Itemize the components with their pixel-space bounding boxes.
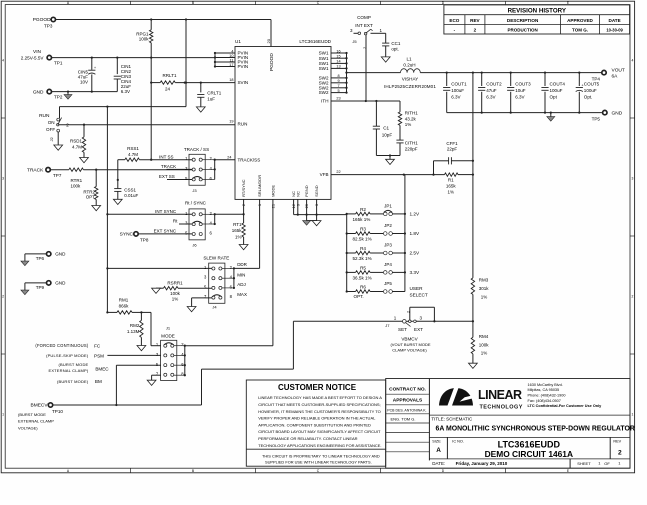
svg-text:R6: R6 bbox=[360, 284, 366, 289]
svg-text:2: 2 bbox=[406, 311, 410, 313]
svg-text:REVISION HISTORY: REVISION HISTORY bbox=[508, 7, 567, 14]
svg-text:OPT: OPT bbox=[86, 195, 96, 200]
svg-text:L1: L1 bbox=[406, 57, 412, 62]
svg-text:RSRR1: RSRR1 bbox=[167, 280, 183, 285]
svg-text:PVIN: PVIN bbox=[238, 64, 249, 69]
svg-text:10uF: 10uF bbox=[515, 88, 526, 93]
svg-text:JP4: JP4 bbox=[384, 262, 392, 267]
svg-text:C1: C1 bbox=[383, 126, 389, 131]
svg-text:OPT.: OPT. bbox=[354, 294, 364, 299]
svg-text:TRACK: TRACK bbox=[161, 164, 176, 169]
svg-text:43.2k: 43.2k bbox=[405, 116, 417, 121]
svg-text:20: 20 bbox=[266, 38, 271, 43]
svg-text:CUSTOMER NOTICE: CUSTOMER NOTICE bbox=[278, 383, 357, 392]
svg-text:CFF1: CFF1 bbox=[446, 141, 458, 146]
svg-text:USER: USER bbox=[410, 286, 424, 291]
svg-text:LINEAR TECHNOLOGY HAS MADE A B: LINEAR TECHNOLOGY HAS MADE A BEST EFFORT… bbox=[258, 395, 382, 400]
svg-text:SW2: SW2 bbox=[319, 90, 329, 95]
svg-text:CC1: CC1 bbox=[391, 41, 400, 46]
svg-text:4.7M: 4.7M bbox=[128, 152, 138, 157]
svg-text:6.3V: 6.3V bbox=[515, 95, 525, 100]
svg-text:EXTERNAL CLAMP): EXTERNAL CLAMP) bbox=[48, 368, 88, 373]
svg-text:TRACK/SS: TRACK/SS bbox=[238, 157, 261, 162]
svg-text:COUT4: COUT4 bbox=[550, 81, 566, 86]
svg-text:TRACK: TRACK bbox=[27, 167, 44, 173]
svg-text:COUT3: COUT3 bbox=[515, 81, 531, 86]
svg-text:COUT5: COUT5 bbox=[584, 81, 600, 86]
svg-text:24: 24 bbox=[227, 155, 231, 159]
svg-text:TRACK / SS: TRACK / SS bbox=[184, 147, 209, 152]
svg-text:1: 1 bbox=[2, 412, 4, 416]
svg-text:Friday, January 29, 2010: Friday, January 29, 2010 bbox=[456, 461, 508, 466]
svg-text:(FORCED CONTINUOUS): (FORCED CONTINUOUS) bbox=[35, 343, 88, 348]
svg-text:FC: FC bbox=[94, 343, 101, 348]
svg-text:opt.: opt. bbox=[391, 46, 399, 51]
svg-text:4.7M: 4.7M bbox=[72, 145, 82, 150]
svg-text:RUN: RUN bbox=[39, 113, 50, 119]
svg-text:MODE: MODE bbox=[271, 185, 276, 197]
svg-text:EXT: EXT bbox=[414, 327, 423, 332]
svg-text:CONTRACT NO.: CONTRACT NO. bbox=[389, 386, 426, 392]
svg-text:LTC Confidential-For Customer: LTC Confidential-For Customer Use Only bbox=[528, 404, 603, 408]
svg-text:DEMO CIRCUIT 1461A: DEMO CIRCUIT 1461A bbox=[485, 449, 573, 459]
svg-text:4: 4 bbox=[631, 58, 633, 62]
svg-text:APPROVALS: APPROVALS bbox=[393, 398, 423, 404]
svg-text:JP3: JP3 bbox=[384, 243, 392, 248]
svg-text:U1: U1 bbox=[235, 39, 241, 44]
svg-text:100uF: 100uF bbox=[550, 88, 563, 93]
svg-text:TP10: TP10 bbox=[52, 409, 63, 414]
svg-text:1: 1 bbox=[631, 412, 633, 416]
svg-text:VOUT: VOUT bbox=[612, 67, 625, 73]
svg-text:LTC3616EUDD: LTC3616EUDD bbox=[299, 39, 331, 44]
svg-text:2: 2 bbox=[474, 27, 477, 32]
svg-text:23: 23 bbox=[336, 97, 340, 101]
svg-text:82.5k 1%: 82.5k 1% bbox=[353, 237, 372, 242]
svg-text:100uF: 100uF bbox=[584, 88, 597, 93]
svg-text:TP2: TP2 bbox=[54, 95, 63, 100]
svg-text:Fax: (408)434-0507: Fax: (408)434-0507 bbox=[528, 399, 561, 403]
svg-text:PCB DES. ANTONINA K.: PCB DES. ANTONINA K. bbox=[387, 408, 426, 412]
svg-text:BM: BM bbox=[95, 379, 102, 384]
svg-text:VIN: VIN bbox=[33, 49, 42, 55]
svg-text:2.5V: 2.5V bbox=[410, 251, 421, 256]
svg-text:18: 18 bbox=[229, 78, 233, 82]
svg-text:TP7: TP7 bbox=[53, 173, 62, 178]
svg-text:R4: R4 bbox=[360, 246, 366, 251]
svg-text:1630 McCarthy Blvd.: 1630 McCarthy Blvd. bbox=[528, 383, 563, 387]
svg-text:RM4: RM4 bbox=[479, 334, 489, 339]
svg-text:TITLE: SCHEMATIC: TITLE: SCHEMATIC bbox=[431, 417, 473, 422]
svg-text:3: 3 bbox=[631, 176, 633, 180]
svg-text:3: 3 bbox=[2, 176, 4, 180]
svg-text:GND: GND bbox=[55, 252, 66, 257]
svg-text:MIN: MIN bbox=[237, 273, 245, 278]
svg-text:SYNC: SYNC bbox=[120, 232, 134, 238]
svg-text:1%: 1% bbox=[235, 234, 242, 239]
svg-text:RM2: RM2 bbox=[130, 323, 140, 328]
svg-text:BMEC: BMEC bbox=[95, 366, 109, 371]
svg-text:CIRCUIT THAT MEETS CUSTOMER-SU: CIRCUIT THAT MEETS CUSTOMER-SUPPLIED SPE… bbox=[258, 402, 380, 407]
svg-text:PSM: PSM bbox=[94, 353, 104, 358]
svg-text:1%: 1% bbox=[172, 297, 179, 302]
svg-text:DATE:: DATE: bbox=[432, 461, 445, 466]
svg-text:2: 2 bbox=[2, 294, 4, 298]
svg-text:LINEAR: LINEAR bbox=[478, 388, 522, 402]
svg-text:100k: 100k bbox=[170, 291, 181, 296]
svg-text:SVIN: SVIN bbox=[238, 80, 249, 85]
svg-text:CIRCUIT BOARD LAYOUT MAY SIGNI: CIRCUIT BOARD LAYOUT MAY SIGNIFICANTLY A… bbox=[258, 429, 381, 434]
svg-text:MAX: MAX bbox=[237, 292, 247, 297]
svg-text:GND: GND bbox=[33, 89, 44, 95]
svg-text:0.01uF: 0.01uF bbox=[124, 193, 138, 198]
svg-text:GND: GND bbox=[55, 281, 66, 286]
svg-text:ENG. TOM G.: ENG. TOM G. bbox=[391, 417, 416, 422]
svg-text:HOWEVER, IT REMAINS THE CUSTOM: HOWEVER, IT REMAINS THE CUSTOMER'S RESPO… bbox=[258, 409, 381, 414]
svg-text:INT SS: INT SS bbox=[159, 154, 173, 159]
svg-text:DESCRIPTION: DESCRIPTION bbox=[507, 18, 539, 23]
svg-text:SGND: SGND bbox=[314, 185, 319, 197]
svg-text:CLAMP VOLTAGE): CLAMP VOLTAGE) bbox=[392, 347, 427, 352]
svg-text:100k: 100k bbox=[139, 37, 150, 42]
svg-text:220pF: 220pF bbox=[405, 146, 418, 151]
svg-text:A: A bbox=[436, 447, 441, 454]
svg-text:CITH1: CITH1 bbox=[405, 141, 418, 146]
svg-text:COMP: COMP bbox=[357, 15, 371, 20]
svg-text:SRLIM/DDR: SRLIM/DDR bbox=[257, 175, 262, 197]
svg-text:SELECT: SELECT bbox=[410, 292, 428, 297]
svg-text:OF: OF bbox=[604, 461, 610, 466]
svg-text:10V: 10V bbox=[80, 80, 88, 85]
svg-text:TP6: TP6 bbox=[36, 256, 45, 261]
svg-text:APPROVED: APPROVED bbox=[567, 18, 593, 23]
svg-text:VERIFY PROPER AND RELIABLE OPE: VERIFY PROPER AND RELIABLE OPERATION IN … bbox=[258, 416, 376, 421]
svg-text:RITH1: RITH1 bbox=[405, 111, 418, 116]
svg-text:Phone: (408)432-1900: Phone: (408)432-1900 bbox=[528, 394, 566, 398]
svg-text:(BURST MODE: (BURST MODE bbox=[58, 362, 88, 367]
svg-text:CRLT1: CRLT1 bbox=[207, 90, 221, 95]
svg-text:1%: 1% bbox=[405, 122, 412, 127]
svg-text:6A MONOLITHIC SYNCHRONOUS STEP: 6A MONOLITHIC SYNCHRONOUS STEP-DOWN REGU… bbox=[436, 426, 635, 433]
svg-text:SUPPLIED FOR USE WITH LINEAR T: SUPPLIED FOR USE WITH LINEAR TECHNOLOGY … bbox=[265, 460, 372, 465]
svg-text:TP3: TP3 bbox=[44, 23, 53, 28]
svg-text:INT SYNC: INT SYNC bbox=[155, 209, 177, 214]
svg-text:JP5: JP5 bbox=[384, 281, 392, 286]
svg-text:SHEET: SHEET bbox=[577, 461, 591, 466]
svg-text:JP1: JP1 bbox=[384, 204, 392, 209]
svg-text:EXT SYNC: EXT SYNC bbox=[154, 229, 177, 234]
svg-text:36.5k 1%: 36.5k 1% bbox=[353, 276, 372, 281]
svg-text:ECO: ECO bbox=[449, 18, 459, 23]
svg-text:LTC3616EUDD: LTC3616EUDD bbox=[498, 440, 561, 450]
svg-text:(VOUT BURST MODE: (VOUT BURST MODE bbox=[390, 342, 430, 347]
svg-text:1%: 1% bbox=[481, 294, 488, 299]
svg-text:10pF: 10pF bbox=[382, 133, 393, 138]
svg-text:RSS1: RSS1 bbox=[127, 146, 139, 151]
svg-text:(BURST MODE: (BURST MODE bbox=[18, 412, 46, 417]
svg-text:1%: 1% bbox=[448, 189, 455, 194]
svg-text:1.2V: 1.2V bbox=[410, 212, 421, 217]
svg-text:SLEW RATE: SLEW RATE bbox=[203, 255, 229, 260]
svg-text:RM1: RM1 bbox=[119, 298, 129, 303]
svg-text:Rt: Rt bbox=[173, 219, 178, 224]
svg-text:VFB: VFB bbox=[320, 172, 329, 177]
svg-text:GND: GND bbox=[612, 110, 623, 116]
svg-text:866k: 866k bbox=[119, 304, 130, 309]
svg-text:165k: 165k bbox=[232, 228, 243, 233]
svg-text:VBMCV: VBMCV bbox=[401, 337, 418, 342]
svg-text:ON: ON bbox=[48, 120, 55, 125]
svg-text:INT EXT: INT EXT bbox=[355, 23, 373, 28]
svg-text:APPLICATION. COMPONENT SUBSTIT: APPLICATION. COMPONENT SUBSTITUTION AND … bbox=[258, 422, 371, 427]
svg-text:RSD1: RSD1 bbox=[70, 139, 83, 144]
svg-text:TECHNOLOGY APPLICATIONS ENGINE: TECHNOLOGY APPLICATIONS ENGINEERING FOR … bbox=[258, 443, 381, 448]
svg-text:R5: R5 bbox=[360, 265, 366, 270]
svg-text:Opt.: Opt. bbox=[584, 95, 593, 100]
svg-text:301k: 301k bbox=[479, 286, 490, 291]
svg-text:6.3V: 6.3V bbox=[486, 95, 496, 100]
svg-text:PGND: PGND bbox=[304, 185, 309, 197]
svg-text:NC: NC bbox=[295, 191, 300, 197]
svg-text:24: 24 bbox=[165, 86, 171, 91]
svg-text:RT/SYNC: RT/SYNC bbox=[241, 179, 246, 197]
svg-text:165k 1%: 165k 1% bbox=[353, 217, 371, 222]
svg-text:IC NO.: IC NO. bbox=[452, 440, 464, 444]
svg-text:+: + bbox=[94, 66, 96, 70]
svg-text:19: 19 bbox=[229, 120, 233, 124]
svg-text:TOM G.: TOM G. bbox=[572, 27, 588, 32]
svg-text:REV: REV bbox=[470, 18, 480, 23]
svg-text:Opt: Opt bbox=[550, 95, 558, 100]
svg-text:22: 22 bbox=[336, 170, 340, 174]
svg-text:REV: REV bbox=[613, 440, 621, 444]
svg-text:RM3: RM3 bbox=[479, 277, 489, 282]
svg-text:R1: R1 bbox=[448, 177, 454, 182]
svg-text:1%: 1% bbox=[481, 351, 488, 356]
svg-text:4: 4 bbox=[2, 58, 4, 62]
svg-text:VOLTAGE): VOLTAGE) bbox=[18, 425, 38, 430]
svg-text:1uF: 1uF bbox=[207, 96, 215, 101]
svg-text:2: 2 bbox=[618, 449, 622, 456]
svg-text:PERFORMANCE OR RELIABILITY. CO: PERFORMANCE OR RELIABILITY. CONTACT LINE… bbox=[258, 436, 357, 441]
svg-text:RRLT1: RRLT1 bbox=[163, 73, 177, 78]
svg-text:R3: R3 bbox=[360, 226, 366, 231]
svg-text:6.3V: 6.3V bbox=[121, 89, 130, 94]
svg-text:(BURST MODE): (BURST MODE) bbox=[57, 379, 89, 384]
svg-text:3.3V: 3.3V bbox=[410, 270, 421, 275]
svg-text:EXTERNAL CLAMP: EXTERNAL CLAMP bbox=[18, 419, 54, 424]
svg-text:SIZE: SIZE bbox=[432, 440, 441, 444]
svg-text:2.25V-5.5V: 2.25V-5.5V bbox=[21, 56, 45, 61]
svg-text:100uF: 100uF bbox=[451, 88, 464, 93]
svg-text:EXT SS: EXT SS bbox=[159, 174, 175, 179]
svg-text:DATE: DATE bbox=[609, 18, 621, 23]
svg-text:ADJ: ADJ bbox=[237, 282, 246, 287]
svg-text:100k: 100k bbox=[479, 343, 490, 348]
svg-text:ITH: ITH bbox=[321, 99, 328, 104]
svg-text:52.3k 1%: 52.3k 1% bbox=[353, 256, 372, 261]
svg-text:VISHAY: VISHAY bbox=[402, 77, 419, 82]
svg-text:SET: SET bbox=[398, 327, 407, 332]
svg-text:TP1: TP1 bbox=[54, 61, 63, 66]
svg-text:R2: R2 bbox=[360, 207, 366, 212]
svg-text:6A: 6A bbox=[612, 74, 619, 80]
svg-text:PRODUCTION: PRODUCTION bbox=[507, 27, 537, 32]
svg-text:22pF: 22pF bbox=[447, 147, 458, 152]
svg-text:TP8: TP8 bbox=[140, 237, 149, 242]
svg-text:RT1: RT1 bbox=[233, 222, 242, 227]
svg-text:47uF: 47uF bbox=[486, 88, 497, 93]
svg-text:IHLP2525CZERR20M01: IHLP2525CZERR20M01 bbox=[384, 84, 436, 89]
svg-text:100k: 100k bbox=[71, 183, 82, 188]
svg-text:BMECV: BMECV bbox=[31, 403, 49, 409]
svg-text:TP5: TP5 bbox=[592, 116, 601, 121]
svg-text:2: 2 bbox=[631, 294, 633, 298]
svg-text:1.8V: 1.8V bbox=[410, 231, 421, 236]
svg-text:0.2uH: 0.2uH bbox=[403, 63, 415, 68]
svg-text:DDR: DDR bbox=[237, 262, 247, 267]
svg-text:TECHNOLOGY: TECHNOLOGY bbox=[480, 405, 523, 411]
svg-text:6.3V: 6.3V bbox=[451, 95, 461, 100]
svg-text:165k: 165k bbox=[446, 183, 457, 188]
svg-text:(PULSE-SKIP MODE): (PULSE-SKIP MODE) bbox=[46, 353, 89, 358]
svg-text:COUT2: COUT2 bbox=[486, 81, 502, 86]
svg-text:1.13M: 1.13M bbox=[127, 329, 140, 334]
svg-text:JP2: JP2 bbox=[384, 223, 392, 228]
svg-text:PGOOD: PGOOD bbox=[269, 53, 275, 71]
svg-text:Rt / SYNC: Rt / SYNC bbox=[185, 200, 207, 205]
svg-text:OFF: OFF bbox=[46, 127, 55, 132]
svg-text:PGOOD: PGOOD bbox=[33, 17, 51, 23]
svg-text:MODE: MODE bbox=[161, 334, 175, 339]
svg-text:RUN: RUN bbox=[238, 122, 248, 127]
svg-text:COUT1: COUT1 bbox=[451, 81, 467, 86]
svg-text:10-30-09: 10-30-09 bbox=[606, 27, 623, 32]
svg-text:TP9: TP9 bbox=[36, 285, 45, 290]
svg-text:Milpitas, CA 95035: Milpitas, CA 95035 bbox=[528, 388, 560, 392]
svg-text:THIS CIRCUIT IS PROPRIETARY TO: THIS CIRCUIT IS PROPRIETARY TO LINEAR TE… bbox=[262, 454, 380, 459]
svg-text:SW1: SW1 bbox=[319, 66, 329, 71]
